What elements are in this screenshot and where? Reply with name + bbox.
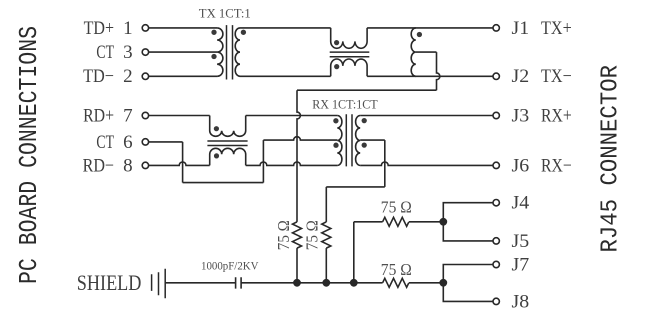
svg-text:RX+: RX+ bbox=[541, 105, 572, 126]
svg-text:J8: J8 bbox=[512, 291, 530, 312]
pin label CT 3 bbox=[96, 42, 132, 63]
value label 75 ohm R1 bbox=[274, 220, 293, 250]
transformer T4 left winding bbox=[337, 116, 342, 166]
wire node J78 to J8 bbox=[443, 283, 493, 302]
terminal J8 bbox=[493, 298, 499, 304]
wire CT3 to T1 bbox=[149, 51, 218, 53]
wire TD- to T1 bbox=[149, 75, 218, 77]
wire RXCT drop to R2 bbox=[325, 187, 327, 222]
terminal pin 2 bbox=[142, 73, 148, 79]
pin label CT 6 bbox=[96, 132, 132, 153]
pin label TD- 2 bbox=[83, 66, 133, 87]
wire CT6 vertical down bbox=[182, 142, 184, 183]
svg-text:J5: J5 bbox=[512, 231, 530, 252]
svg-text:75 Ω: 75 Ω bbox=[303, 220, 322, 250]
wire T5 tap vertical hop over J2 bbox=[437, 52, 440, 90]
terminal J6 bbox=[493, 162, 499, 168]
wire riser to R3 bbox=[354, 221, 383, 223]
svg-text:75 Ω: 75 Ω bbox=[381, 198, 412, 217]
node SHIELD label bbox=[77, 270, 142, 295]
wire R1 to shield bus bbox=[296, 248, 298, 283]
svg-text:CT: CT bbox=[96, 42, 114, 63]
terminal J3 bbox=[493, 112, 499, 118]
capacitor C1 plates bbox=[236, 277, 242, 288]
wire shield to capacitor C1 bbox=[165, 282, 235, 284]
wire T4 to J6 hop over RXCT bbox=[360, 162, 493, 165]
pin label J5 bbox=[512, 231, 530, 252]
wire node TXCT vertical hop over RD+ bbox=[297, 90, 300, 222]
choke T3 core bbox=[207, 141, 247, 146]
choke T2 top winding bbox=[331, 28, 367, 48]
wire node J45 to J5 bbox=[443, 222, 493, 241]
pin label TD+ 1 bbox=[84, 18, 133, 39]
terminal J1 bbox=[493, 25, 499, 31]
transformer T1 primary winding bbox=[217, 28, 223, 76]
transformer T1 polarity dots bbox=[211, 30, 246, 59]
svg-text:J2: J2 bbox=[512, 66, 530, 87]
svg-text:CT: CT bbox=[96, 132, 114, 153]
value label 75 ohm R2 bbox=[303, 220, 322, 250]
junction dots shield bus and forks bbox=[293, 218, 447, 287]
resistor R4 75 ohm bbox=[383, 278, 409, 287]
svg-text:1000pF/2KV: 1000pF/2KV bbox=[201, 259, 259, 273]
svg-text:8: 8 bbox=[123, 155, 133, 176]
svg-text:3: 3 bbox=[123, 42, 133, 63]
pin label J6 RX- bbox=[512, 155, 572, 176]
pin label J8 bbox=[512, 291, 530, 312]
wire node J78 to J7 bbox=[443, 265, 493, 283]
resistor R3 75 ohm bbox=[383, 217, 409, 226]
wire RXCT vertical bbox=[384, 140, 386, 187]
svg-text:RX−: RX− bbox=[541, 155, 572, 176]
wire C1 to shield bus bbox=[241, 282, 383, 284]
value label 1000pF/2KV bbox=[201, 259, 259, 273]
autotransformer T5 polarity dot bbox=[417, 32, 422, 37]
wire R4 to node J78 bbox=[409, 282, 443, 284]
svg-text:7: 7 bbox=[123, 105, 133, 126]
wire TD+ to T1 bbox=[149, 27, 218, 29]
wire node J45 to J4 bbox=[443, 203, 493, 222]
svg-text:J3: J3 bbox=[512, 105, 530, 126]
choke T2 polarity dots bbox=[334, 40, 339, 69]
svg-text:TD+: TD+ bbox=[84, 18, 114, 39]
terminal pin 3 bbox=[142, 49, 148, 55]
wire choke T3 to T4 bottom with hops bbox=[246, 162, 338, 165]
svg-text:PC BOARD CONNECTIONS: PC BOARD CONNECTIONS bbox=[14, 26, 44, 284]
terminal pin 8 bbox=[142, 162, 148, 168]
wire CT6 bottom run bbox=[183, 182, 264, 184]
svg-text:1: 1 bbox=[123, 18, 133, 39]
svg-text:RJ45 CONNECTOR: RJ45 CONNECTOR bbox=[598, 65, 625, 253]
wire T1 to choke T2 bottom bbox=[240, 75, 331, 77]
node RJ45 CONNECTOR label bbox=[598, 65, 625, 253]
terminal J2 bbox=[493, 73, 499, 79]
transformer T4 core bbox=[346, 114, 352, 166]
wire choke T2 to J2 with tap hop bbox=[367, 75, 493, 77]
svg-text:RD−: RD− bbox=[83, 155, 114, 176]
wire R3 to node J45 bbox=[409, 221, 443, 223]
svg-text:TD−: TD− bbox=[83, 66, 114, 87]
transformer T4 right winding bbox=[356, 116, 361, 166]
shield terminal bars bbox=[152, 269, 166, 299]
terminal pin 1 bbox=[142, 25, 148, 31]
wire CT6 riser bbox=[262, 140, 264, 183]
resistor R2 75 ohm bbox=[322, 222, 331, 248]
pin label J4 bbox=[512, 193, 530, 214]
choke T3 polarity dots bbox=[214, 126, 219, 158]
wire CT6 horizontal bbox=[149, 141, 183, 143]
svg-text:6: 6 bbox=[123, 132, 133, 153]
wire T1 to choke T2 top bbox=[240, 27, 331, 29]
wire upper branch riser bbox=[353, 222, 355, 283]
value label RX 1CT:1CT bbox=[312, 97, 378, 112]
wire T4 right center tap bbox=[360, 139, 385, 141]
value label 75 ohm R3 bbox=[381, 198, 412, 217]
wire CT6 to T4 center tap hop over TXCT bbox=[263, 137, 337, 140]
svg-text:J4: J4 bbox=[512, 193, 530, 214]
choke T3 top winding bbox=[210, 116, 246, 137]
svg-text:J6: J6 bbox=[512, 155, 530, 176]
transformer T1 core bbox=[227, 25, 233, 79]
value label TX 1CT:1 bbox=[199, 6, 251, 21]
choke T3 bottom winding bbox=[210, 148, 246, 165]
transformer T4 polarity dots bbox=[333, 118, 367, 148]
pin label J3 RX+ bbox=[512, 105, 572, 126]
pin label RD- 8 bbox=[83, 155, 133, 176]
wire RD- hop over CT6 vertical bbox=[149, 162, 210, 165]
pin label J2 TX- bbox=[512, 66, 572, 87]
svg-text:2: 2 bbox=[123, 66, 133, 87]
value label 75 ohm R4 bbox=[381, 260, 412, 279]
terminal J7 bbox=[493, 261, 499, 267]
wire RXCT bottom run bbox=[326, 186, 385, 188]
svg-text:J7: J7 bbox=[512, 254, 530, 275]
wire R2 to shield bus bbox=[325, 248, 327, 283]
transformer T1 secondary winding bbox=[235, 28, 240, 76]
pin label RD+ 7 bbox=[83, 105, 133, 126]
svg-text:SHIELD: SHIELD bbox=[77, 270, 142, 295]
node PC BOARD CONNECTIONS label bbox=[14, 26, 44, 284]
wire T4 to J3 bbox=[360, 115, 493, 117]
svg-text:75 Ω: 75 Ω bbox=[381, 260, 412, 279]
svg-text:75 Ω: 75 Ω bbox=[274, 220, 293, 250]
terminal pin 6 bbox=[142, 139, 148, 145]
svg-text:RD+: RD+ bbox=[83, 105, 114, 126]
wire T5 center tap horizontal bbox=[416, 51, 437, 53]
wire choke T3 to T4 top bbox=[246, 115, 338, 117]
pin label J1 TX+ bbox=[512, 18, 572, 39]
svg-text:TX 1CT:1: TX 1CT:1 bbox=[199, 6, 251, 21]
svg-text:TX−: TX− bbox=[541, 66, 572, 87]
resistor R1 75 ohm bbox=[293, 222, 302, 248]
terminal pin 7 bbox=[142, 112, 148, 118]
wire RD+ to choke T3 bbox=[149, 115, 210, 117]
svg-text:TX+: TX+ bbox=[541, 18, 572, 39]
choke T2 bottom winding bbox=[331, 59, 367, 76]
choke T2 core bbox=[330, 52, 370, 57]
wire choke T2 to J1 bbox=[367, 27, 493, 29]
terminal J4 bbox=[493, 200, 499, 206]
autotransformer T5 winding bbox=[411, 28, 416, 76]
terminal J5 bbox=[493, 238, 499, 244]
pin label J7 bbox=[512, 254, 530, 275]
svg-text:RX 1CT:1CT: RX 1CT:1CT bbox=[312, 97, 378, 112]
svg-text:J1: J1 bbox=[512, 18, 530, 39]
wire T5 tap run to node TXCT bbox=[297, 89, 437, 91]
